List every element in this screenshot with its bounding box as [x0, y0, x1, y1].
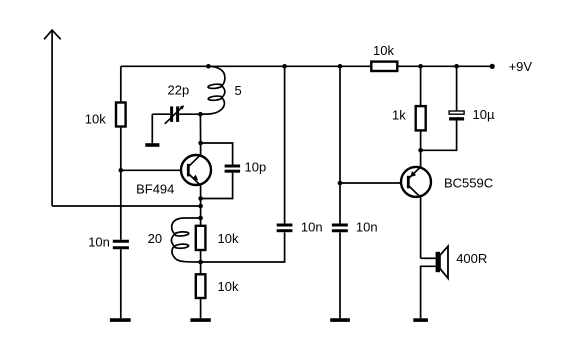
node collector junction — [198, 141, 203, 146]
node +9V terminal — [490, 64, 495, 69]
wire coil20 top to R2 — [200, 218, 202, 226]
wire varcap left to ground riser — [152, 113, 170, 115]
node cap1 rail junction — [282, 64, 287, 69]
node rail 1k junction — [418, 64, 423, 69]
svg-text:22p: 22p — [168, 82, 190, 97]
wire left branch down from rail — [120, 66, 122, 102]
inductor 5 (tank coil) — [200, 66, 225, 114]
svg-text:10n: 10n — [301, 220, 323, 235]
wire 10u down and left to junction — [421, 121, 457, 151]
svg-text:BF494: BF494 — [136, 182, 174, 197]
node tank junction — [198, 112, 203, 117]
node emitter junction — [198, 196, 203, 201]
transistor Q2 BC559C — [401, 167, 431, 258]
svg-text:BC559C: BC559C — [444, 175, 493, 190]
wire rail to 10u — [456, 66, 458, 111]
svg-text:10k: 10k — [218, 231, 239, 246]
svg-text:400R: 400R — [456, 251, 487, 266]
wire 10n to ground — [120, 249, 122, 318]
variable capacitor 22p — [165, 105, 185, 124]
svg-text:10n: 10n — [356, 220, 378, 235]
node rail 10u junction — [454, 64, 459, 69]
svg-text:10µ: 10µ — [473, 107, 495, 122]
resistor 10k (emitter upper) — [196, 226, 206, 250]
svg-text:1k: 1k — [392, 107, 406, 122]
capacitor 10n (middle 2) — [332, 225, 348, 231]
svg-text:10k: 10k — [373, 43, 394, 58]
wire emitter node to antenna node — [200, 199, 202, 207]
ground (emitter divider) — [190, 318, 210, 322]
wire rail right of R 10k — [397, 65, 492, 67]
wire 10n cap2 to ground — [339, 232, 341, 318]
resistor 10k (collector load, horizontal) — [371, 62, 397, 71]
capacitor 10u electrolytic — [449, 111, 464, 121]
wire node to 10n decoupling cap — [201, 232, 285, 262]
wire branch x340 rail to cap — [339, 66, 341, 223]
wire antenna node to coil20 node — [200, 206, 202, 218]
wire collector node to 10p cap — [201, 143, 233, 165]
svg-text:10k: 10k — [218, 279, 239, 294]
svg-text:5: 5 — [235, 83, 242, 98]
capacitor 10n (middle 1) — [277, 225, 293, 231]
capacitor 10n (left) — [113, 241, 129, 248]
wire +9V top rail — [121, 65, 371, 67]
wire tank node down to collector node — [199, 114, 201, 143]
capacitor 10p — [225, 166, 241, 171]
wire ground riser — [151, 114, 153, 143]
ground (speaker) — [413, 318, 428, 322]
wire antenna to emitter node — [52, 205, 201, 207]
wire R2 bottom to node — [200, 250, 202, 262]
node antenna junction — [198, 204, 203, 209]
wire 1k to emitter node — [420, 130, 422, 167]
transistor Q1 BF494 — [181, 143, 211, 199]
svg-text:10n: 10n — [88, 234, 110, 249]
svg-text:10p: 10p — [245, 160, 267, 175]
antenna — [44, 30, 61, 206]
ground (left 10n) — [110, 318, 131, 322]
resistor 10k (top left bias) — [116, 103, 126, 127]
node branch rail junction — [338, 64, 343, 69]
wire rail to 1k — [420, 66, 422, 106]
node coil top on rail — [206, 64, 211, 69]
svg-text:+9V: +9V — [509, 59, 533, 74]
resistor 10k (emitter lower) — [196, 262, 206, 318]
svg-text:20: 20 — [148, 231, 162, 246]
node coil20 bottom junction — [198, 260, 203, 265]
wire base of BC559C — [340, 182, 408, 184]
wire varcap right to tank node — [179, 113, 200, 115]
ground (10n cap2) — [330, 318, 350, 322]
resistor 1k — [416, 106, 426, 130]
svg-text:10k: 10k — [85, 112, 106, 127]
wire base of BF494 — [121, 169, 189, 171]
wire 10n cap1 up to rail — [284, 66, 286, 223]
wire resistor to base node and down to 10n cap — [120, 127, 122, 240]
speaker 400R — [421, 246, 448, 318]
wire 10p bottom to emitter node — [201, 173, 233, 199]
node coil20 top junction — [198, 216, 203, 221]
node 1k/10u junction — [418, 148, 423, 153]
ground (varcap) — [145, 143, 159, 147]
node BC559C base junction — [338, 181, 343, 186]
node base junction — [119, 168, 124, 173]
inductor 20 (emitter coil) — [171, 218, 200, 262]
